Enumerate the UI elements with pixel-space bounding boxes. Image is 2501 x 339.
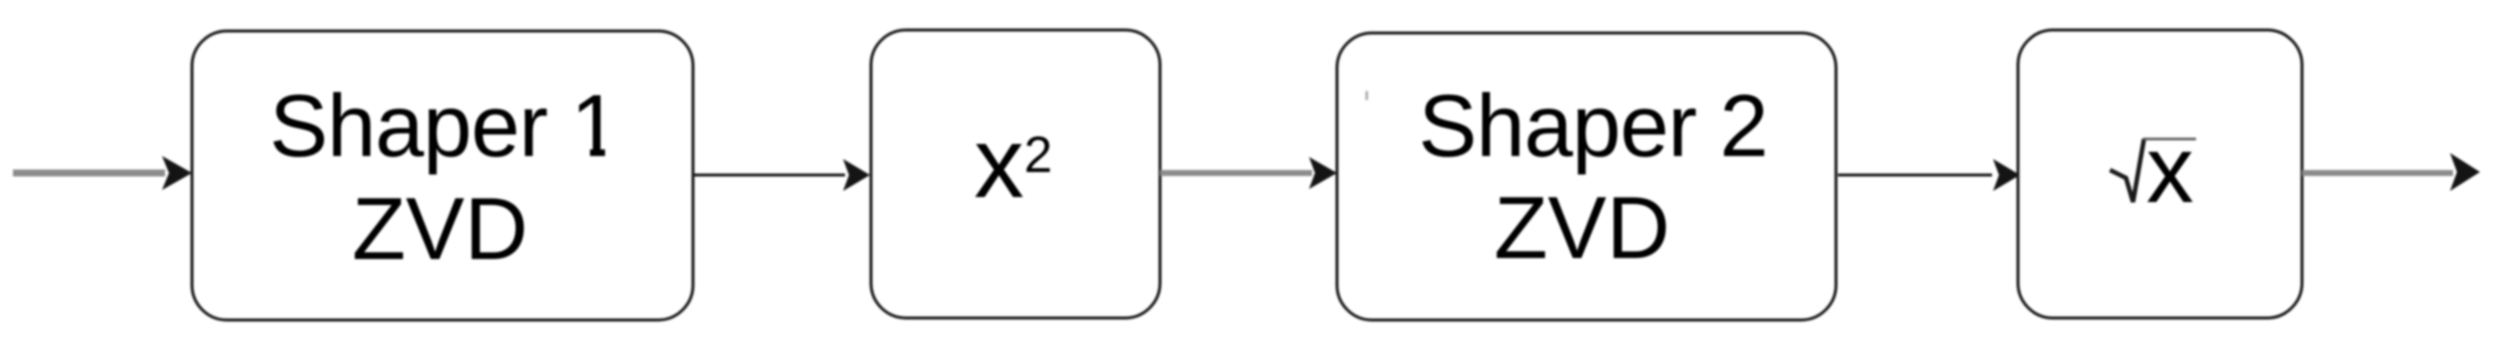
arrowhead box1 to box2 xyxy=(843,159,870,191)
arrowhead box3 to box4 xyxy=(1993,159,2020,191)
svg-text:Shaper 2: Shaper 2 xyxy=(1418,76,1767,175)
svg-text:Shaper 1: Shaper 1 xyxy=(269,76,618,175)
block sqrt x xyxy=(2018,30,2302,318)
wire box1 to box2 xyxy=(694,174,845,177)
wire output arrow xyxy=(2302,170,2453,176)
wire box3 to box4 xyxy=(1838,174,1992,177)
output arrowhead xyxy=(2450,153,2480,191)
block x squared xyxy=(871,30,1160,318)
block Shaper 2 ZVD xyxy=(1337,33,1836,320)
svg-text:ZVD: ZVD xyxy=(352,179,528,278)
wire box2 to box3 xyxy=(1160,170,1312,176)
arrowhead box2 to box3 xyxy=(1309,157,1337,189)
block Shaper 1 ZVD xyxy=(192,31,693,320)
svg-text:ZVD: ZVD xyxy=(1494,178,1670,277)
input arrowhead xyxy=(162,156,192,190)
svg-text:x: x xyxy=(974,107,1024,219)
svg-text:x: x xyxy=(2146,117,2194,223)
wire input arrow line xyxy=(13,170,165,177)
svg-text:2: 2 xyxy=(1024,126,1052,183)
